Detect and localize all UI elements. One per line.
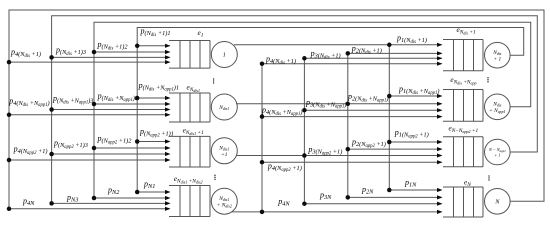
svg-text:N: N: [494, 198, 500, 205]
svg-text:+1: +1: [221, 152, 228, 158]
svg-text:1: 1: [223, 53, 226, 59]
svg-text:+ 1: + 1: [494, 152, 500, 157]
svg-text:+ 1: + 1: [493, 56, 501, 62]
